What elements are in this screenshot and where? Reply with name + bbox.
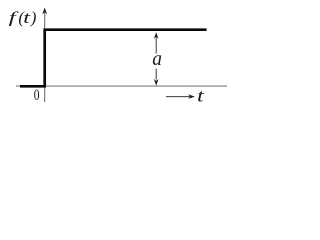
svg-text:t: t [197, 86, 205, 106]
t-axis direction arrow [166, 96, 191, 98]
svg-text:): ) [30, 8, 37, 27]
x-axis [16, 85, 227, 87]
dimension arrow a: lower segment [155, 69, 157, 80]
svg-text:0: 0 [34, 87, 40, 104]
dimension arrow a: lower arrowhead [154, 79, 159, 86]
svg-text:a: a [152, 49, 162, 70]
step function f(t)=a·u(t) [20, 30, 207, 87]
axis label f(t) [9, 8, 37, 27]
dimension arrow a: upper arrowhead [154, 32, 159, 39]
y-axis arrowhead [42, 8, 47, 15]
y-axis [44, 13, 46, 103]
dimension arrow a: upper segment [155, 38, 157, 54]
t-axis arrowhead [188, 94, 195, 99]
